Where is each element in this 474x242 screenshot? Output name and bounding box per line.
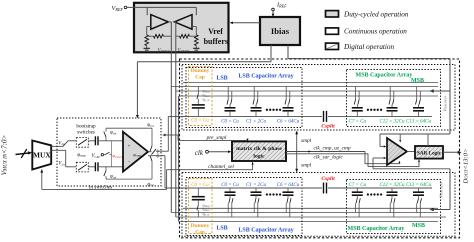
wire comparator input P [379,134,381,147]
comparator U1 (preamp) [123,132,148,172]
capacitor C0 (bottom LSB) [229,188,231,192]
svg-text:Duty-cycled operation: Duty-cycled operation [343,10,409,18]
dummy cap box (top) [189,67,213,126]
svg-text:MSB: MSB [412,223,425,229]
capacitor sampling (bottom) [94,162,96,171]
wire MUX out n [51,149,65,151]
capacitor C1 (bottom LSB) [255,188,257,192]
MSB capacitor array box (bottom) [347,180,441,234]
svg-text:smpl: smpl [301,162,312,168]
capacitor C0 (top LSB) [227,87,229,100]
svg-text:MSB: MSB [411,78,424,84]
svg-text:C1 = 2Cu: C1 = 2Cu [246,119,267,124]
svg-text:Digital operation: Digital operation [343,43,395,51]
svg-text:VREF: VREF [112,5,124,12]
svg-text:clk_sar_logic: clk_sar_logic [314,155,344,161]
wire DAC sense arrow into bottom MSB [430,208,434,212]
wire Ibias to Vref buffers [231,22,260,24]
svg-text:SAR Logic: SAR Logic [417,151,442,157]
switch phi_rst (bottom left) [105,167,107,171]
svg-text:Cap: Cap [195,75,205,81]
capacitor C12 (top MSB) [389,87,391,100]
svg-text:C1 = 2Cu: C1 = 2Cu [246,183,267,188]
wire buffer A1 output down (VREFN) [168,21,171,23]
in switches box [57,118,161,186]
switch phi_rst (top left) [105,137,107,141]
ground (right) [195,46,197,49]
wire comparator az feedback top [399,134,401,141]
wire VCM long vertical [178,96,180,222]
wire DAC sense vertical bottom (right) [449,169,451,210]
svg-text:φrst: φrst [147,123,154,128]
wire DAC rail (bottom MSB) [347,187,433,189]
wire pre_smpl [178,139,248,141]
dots (bottom LSB) [266,193,268,195]
svg-text:Csplit: Csplit [321,123,335,129]
capacitor C6 (bottom LSB) [287,188,289,192]
legend duty-cycled operation [326,11,339,17]
svg-text:φrst: φrst [110,131,117,136]
svg-text:V2p: V2p [58,141,65,146]
svg-text:φsmp: φsmp [77,153,86,158]
svg-text:Csplit: Csplit [321,176,335,182]
legend continuous operation [326,28,339,34]
op-amp buffer A1 (left, points right) [151,15,169,30]
wire pre_smpl into in-switches [162,134,165,137]
SAR logic block [415,146,443,159]
svg-text:LSB: LSB [216,226,227,232]
svg-text:C0 = Cu: C0 = Cu [221,183,239,188]
svg-text:φrst: φrst [147,182,154,187]
svg-text:LSB Capacitor Array: LSB Capacitor Array [238,74,293,80]
wire VREF to buffer [127,6,147,8]
svg-text:pre_smpl: pre_smpl [206,135,227,141]
svg-text:C6 = 64Cu: C6 = 64Cu [277,119,300,124]
svg-text:MUX: MUX [33,151,51,160]
dummy cap box (bottom) [189,179,213,234]
ground (left) [146,46,148,49]
capacitor C1 (top LSB) [253,87,255,100]
wire clk to matrix logic [208,151,230,153]
capacitor C0 dummy (bottom) [197,188,199,197]
svg-text:clk_cmp, az_cmp: clk_cmp, az_cmp [314,146,351,152]
svg-text:C7 = Cu: C7 = Cu [349,119,367,124]
dots (top MSB) [367,109,369,111]
svg-text:C0 = Cu: C0 = Cu [191,118,209,123]
svg-text:VCM: VCM [91,154,99,159]
ADC core outer box (duty-cycled boundary) [180,59,460,238]
wire top feed [147,6,196,8]
capacitor C6 (top LSB) [285,87,287,100]
bootstrap switch S1 (top) [76,138,88,148]
svg-text:DOUT<13:0>: DOUT<13:0> [463,149,470,185]
wire DAC rail (bottom LSB) [165,187,302,189]
rail VREFN bottom [171,212,438,214]
wire buffer A2 output down (VREFP) [175,21,176,23]
svg-text:logic: logic [253,153,265,159]
svg-text:MSB Capacitor Array: MSB Capacitor Array [348,226,405,232]
wire MUX input with bus slash [16,153,31,155]
svg-text:smpl: smpl [301,138,312,144]
svg-text:+: + [128,144,131,149]
svg-text:φp_m: φp_m [203,212,210,217]
rail VCM bottom [179,221,438,223]
legend digital operation [326,43,339,49]
rail VREFP bottom [176,216,446,218]
dots (top LSB) [266,109,268,111]
rail gnd bottom [183,207,438,209]
resistor R2 (right divider) [195,35,199,46]
capacitor C7 (bottom MSB) [356,188,358,192]
wire MUX out p [51,145,63,147]
bottom channel box [182,173,455,237]
wire comparator output [407,151,415,153]
svg-text:VDACP(N): VDACP(N) [443,96,448,111]
wire DAC rail (top MSB) [347,115,433,117]
wire A2 feedback [192,26,196,28]
rail VCM top [176,90,446,92]
dots (bottom MSB) [367,193,369,195]
bootstrap switch S2 (bottom) [76,162,88,172]
wire IREF into Ibias [272,11,274,16]
svg-text:MSB Capacitor Array: MSB Capacitor Array [356,73,413,79]
Vref buffers block [134,3,229,53]
capacitor C13 (top MSB) [416,87,418,100]
wire clk_sar_logic [286,153,368,155]
svg-text:φrst: φrst [110,175,117,180]
svg-text:VDACN(P): VDACN(P) [439,182,444,197]
svg-text:φp_m: φp_m [203,97,210,102]
resistor R3 (left feedback) [154,34,164,38]
Ibias block [260,17,300,45]
svg-text:φcmp: φcmp [133,152,141,158]
svg-text:-: - [128,159,130,165]
svg-text:IREF: IREF [276,1,287,8]
svg-text:C0 = Cu: C0 = Cu [191,183,209,188]
svg-text:buffers: buffers [204,37,228,46]
matrix clk and phase logic block [232,141,286,161]
wire Ibias bias right (to DAC sense) [287,45,289,59]
LSB capacitor array box (bottom) [186,178,302,236]
svg-text:switches: switches [77,130,95,136]
wire DAC sense vertical (right) [449,59,451,134]
switch phi_cmp (output) [148,151,152,153]
rail VREFN top [171,86,438,88]
capacitor Csplit (top) [302,115,322,117]
svg-text:C6 = 64Cu: C6 = 64Cu [277,183,300,188]
capacitor sampling (top) [94,136,96,145]
switch phi_rst (top right, az) [151,128,153,146]
switch phi_rst (bottom right, az) [151,161,153,179]
resistor R4 (right feedback) [180,34,190,38]
svg-text:C12 = 32Cu: C12 = 32Cu [379,119,405,124]
svg-text:clk: clk [195,149,204,157]
capacitor Csplit (bottom) [302,187,322,189]
svg-text:Continuous operation: Continuous operation [344,28,407,36]
svg-text:C13 = 64Cu: C13 = 64Cu [406,119,432,124]
wire Ibias bias left (to comparator) [270,45,272,62]
comparator U2 [387,138,407,165]
svg-text:LSB Capacitor Array: LSB Capacitor Array [238,228,293,234]
capacitor C12 (bottom MSB) [391,188,393,192]
svg-text:C13 = 64Cu: C13 = 64Cu [406,183,432,188]
capacitor C7 (top MSB) [355,87,357,100]
wire A1 feedback [147,26,151,28]
wire smpl vertical [296,132,298,172]
rail VREFP top [183,82,438,84]
svg-text:LSB: LSB [216,76,227,82]
wire VREFN long vertical [170,87,172,213]
capacitor C0 dummy (top) [197,87,199,95]
svg-text:Dummy: Dummy [191,223,210,229]
svg-text:Cap: Cap [195,230,205,236]
resistor R1 (left divider) [145,35,149,46]
svg-text:matrix clk & phase: matrix clk & phase [236,146,282,152]
wire clk_cmp [286,151,365,153]
wire preamp outputs to channels [156,150,168,152]
wire VREFP long vertical [175,91,177,217]
capacitor C13 (bottom MSB) [418,188,420,192]
svg-text:Ibias: Ibias [271,26,290,36]
LSB capacitor array box (top) [186,68,302,128]
wire channel_sel [252,161,254,170]
wire SAR feedback up [427,134,429,146]
svg-text:C12 = 32Cu: C12 = 32Cu [379,183,405,188]
MSB capacitor array box (top) [347,70,441,127]
svg-text:Vref: Vref [208,27,223,36]
svg-text:V2n: V2n [58,162,65,167]
op-amp buffer A2 (right, points left) [175,15,193,30]
top channel box [182,65,455,131]
wire DAC sense arrow into top MSB [430,89,434,93]
wire DOUT [443,151,460,153]
svg-text:Dummy: Dummy [191,68,210,74]
svg-text:φcmp: φcmp [155,149,160,157]
svg-text:channel_sel: channel_sel [208,164,234,170]
rail gnd top [179,95,438,97]
wire comparator input N [372,158,374,169]
wire DAC rail (top LSB) [168,115,302,117]
mux MUX [32,141,51,170]
svg-text:C7 = Cu: C7 = Cu [349,183,367,188]
svg-text:C0 = Cu: C0 = Cu [221,119,239,124]
